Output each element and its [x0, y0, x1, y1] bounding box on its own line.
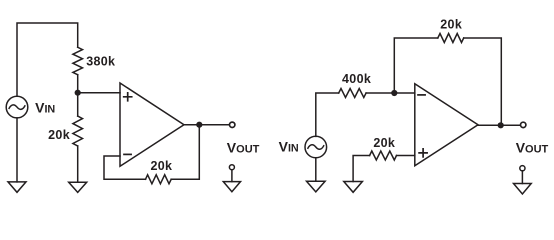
wire U1 inverting input to feedback — [104, 156, 146, 179]
resistor R1 380k — [73, 47, 83, 74]
label 20k (R5) — [440, 18, 462, 32]
label VIN (left) — [35, 100, 55, 116]
U1 minus sign — [124, 153, 131, 155]
svg-text:VOUT: VOUT — [516, 139, 549, 155]
U2 minus sign — [418, 94, 425, 96]
op-amp U2 — [415, 84, 478, 166]
resistor R2 20k — [73, 116, 83, 146]
wire R1 to node A — [77, 75, 79, 93]
svg-text:380k: 380k — [86, 55, 115, 69]
ground (below left VOUT) — [223, 182, 240, 192]
wire node A to op-amp + input — [78, 92, 120, 94]
svg-text:20k: 20k — [373, 136, 395, 150]
reference terminal circle (right) — [520, 166, 525, 171]
svg-text:400k: 400k — [342, 72, 371, 86]
svg-text:VOUT: VOUT — [227, 139, 260, 155]
op-amp U1 — [120, 83, 184, 166]
node D output junction dot — [498, 122, 504, 128]
wire R5 down to output node — [464, 38, 502, 125]
wire V2 top to R4 — [316, 93, 339, 136]
node C junction dot — [391, 90, 397, 96]
label 20k (R3) — [150, 159, 172, 173]
source V1 — [6, 96, 28, 118]
wire node A down to R2 — [77, 93, 79, 116]
wire V1 to ground — [16, 118, 18, 182]
resistor R4 400k — [339, 89, 366, 98]
wire R6 to op-amp + input — [397, 155, 415, 157]
wire node C up to feedback R5 — [394, 38, 438, 93]
ground (below V1) — [8, 182, 26, 192]
label VIN (right) — [279, 138, 299, 154]
label VOUT (left) — [227, 139, 260, 155]
terminal VOUT (left circuit) — [230, 122, 235, 127]
wire R2 to ground — [77, 146, 79, 182]
wire R4 to node C — [366, 92, 394, 94]
source V2 — [305, 136, 327, 158]
svg-text:VIN: VIN — [279, 138, 299, 154]
svg-text:20k: 20k — [440, 18, 462, 32]
label 400k — [342, 72, 371, 86]
ground (for R6) — [344, 182, 363, 193]
wire R3 up to output node — [171, 125, 199, 180]
U2 plus sign — [419, 149, 427, 157]
reference terminal circle (left) — [229, 165, 234, 170]
node B output junction dot — [196, 122, 202, 128]
label VOUT (right) — [516, 139, 549, 155]
resistor R3 20k feedback — [146, 175, 172, 184]
node A junction dot — [75, 90, 81, 96]
wire top-left loop from VIN to R1 — [17, 23, 78, 96]
wire node C to op-amp inverting input — [394, 92, 415, 94]
wire U2 output — [478, 124, 520, 126]
ground (below right VOUT) — [514, 184, 532, 195]
ground (below R2) — [69, 182, 87, 192]
label 380k — [86, 55, 115, 69]
wire terminal to ground — [231, 170, 233, 182]
label 20k (R6) — [373, 136, 395, 150]
U1 plus sign — [124, 93, 132, 101]
wire terminal to ground (right) — [521, 171, 523, 184]
label 20k (R2) — [48, 128, 70, 142]
resistor R6 20k — [370, 151, 397, 160]
wire V2 bottom to ground — [315, 158, 317, 181]
wire U1 output — [184, 124, 229, 126]
svg-text:20k: 20k — [150, 159, 172, 173]
svg-text:VIN: VIN — [35, 100, 55, 116]
svg-text:20k: 20k — [48, 128, 70, 142]
resistor R5 20k feedback top — [438, 34, 464, 43]
terminal VOUT (right circuit) — [521, 122, 526, 127]
ground (below V2) — [307, 181, 326, 192]
wire ground to R6 — [353, 156, 370, 182]
